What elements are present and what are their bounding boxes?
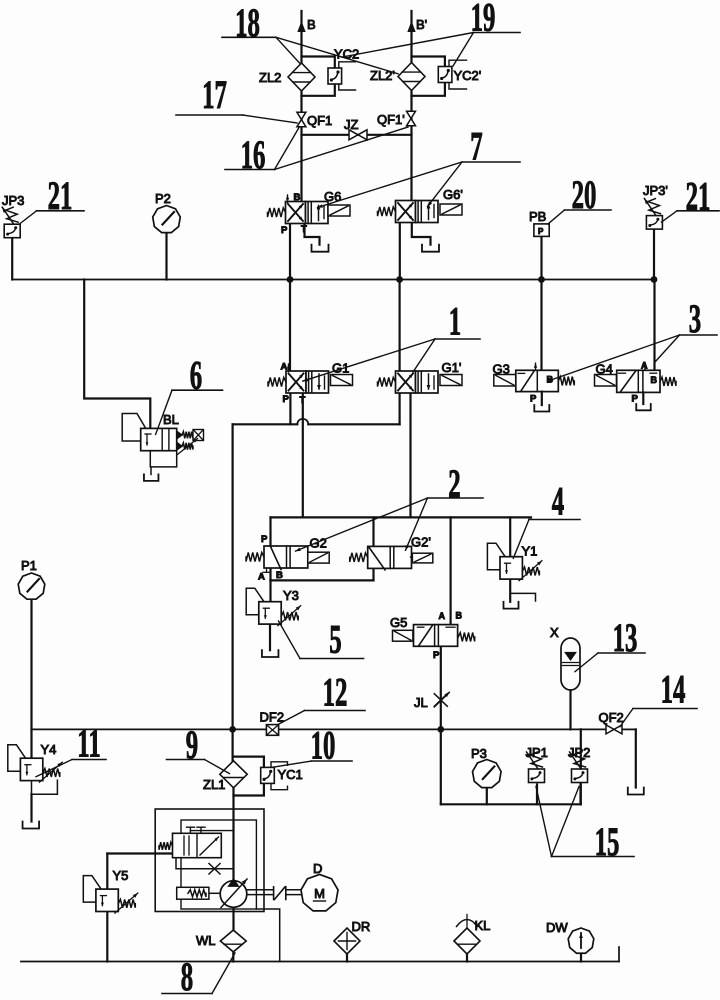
svg-text:B: B <box>307 17 316 32</box>
svg-text:6: 6 <box>190 354 202 398</box>
svg-text:13: 13 <box>613 616 638 660</box>
svg-text:KL: KL <box>475 918 491 933</box>
svg-text:P: P <box>538 227 544 236</box>
svg-text:14: 14 <box>661 668 686 712</box>
svg-text:JP1: JP1 <box>526 745 548 760</box>
svg-text:BL: BL <box>163 412 179 427</box>
svg-text:ZL2': ZL2' <box>370 68 395 83</box>
svg-text:ZL2: ZL2 <box>259 70 281 85</box>
svg-text:JL: JL <box>414 695 428 710</box>
svg-text:A: A <box>281 362 288 373</box>
svg-text:Y4: Y4 <box>41 742 57 757</box>
svg-text:B: B <box>456 611 463 621</box>
svg-text:B: B <box>294 192 301 203</box>
svg-text:5: 5 <box>329 618 341 662</box>
svg-text:G6: G6 <box>324 189 341 204</box>
svg-text:9: 9 <box>186 723 198 767</box>
svg-text:G5: G5 <box>390 615 407 630</box>
svg-text:B': B' <box>416 17 427 32</box>
svg-text:P2: P2 <box>155 191 171 206</box>
svg-text:JZ: JZ <box>344 117 359 132</box>
svg-text:D: D <box>313 861 322 876</box>
svg-text:12: 12 <box>323 671 348 715</box>
svg-text:DW: DW <box>546 920 568 935</box>
svg-text:19: 19 <box>471 0 496 40</box>
svg-text:DF2: DF2 <box>260 710 285 725</box>
svg-text:PB: PB <box>529 209 546 224</box>
svg-text:18: 18 <box>235 1 260 45</box>
svg-text:Y5: Y5 <box>113 868 129 883</box>
svg-text:20: 20 <box>572 173 597 217</box>
svg-text:G6': G6' <box>443 187 463 202</box>
svg-text:QF2: QF2 <box>599 710 624 725</box>
svg-text:21: 21 <box>48 174 73 218</box>
svg-text:P: P <box>632 394 639 405</box>
svg-text:Y3: Y3 <box>283 588 299 603</box>
svg-text:B: B <box>276 570 283 581</box>
svg-text:JP3': JP3' <box>643 183 668 198</box>
svg-text:21: 21 <box>686 175 711 219</box>
svg-text:A: A <box>641 361 648 371</box>
svg-text:17: 17 <box>202 73 227 117</box>
svg-text:P: P <box>281 225 288 236</box>
svg-text:B: B <box>651 375 658 385</box>
svg-text:15: 15 <box>595 820 620 864</box>
svg-text:G2: G2 <box>310 536 327 551</box>
svg-text:G2': G2' <box>411 535 431 550</box>
svg-text:A: A <box>258 572 265 583</box>
svg-text:QF1: QF1 <box>307 113 332 128</box>
svg-text:Y1: Y1 <box>522 544 538 559</box>
svg-text:DR: DR <box>352 919 371 934</box>
svg-text:P: P <box>530 394 537 405</box>
svg-text:X: X <box>550 625 559 640</box>
svg-text:G1': G1' <box>442 360 462 375</box>
svg-text:P: P <box>261 534 268 545</box>
svg-text:ZL1: ZL1 <box>203 777 225 792</box>
svg-text:P3: P3 <box>471 746 487 761</box>
svg-text:G1: G1 <box>332 361 349 376</box>
svg-text:JP2: JP2 <box>568 745 590 760</box>
svg-text:P: P <box>433 650 440 661</box>
svg-text:M: M <box>314 886 325 901</box>
svg-text:YC2': YC2' <box>454 68 482 83</box>
svg-text:YC1: YC1 <box>278 767 303 782</box>
svg-text:4: 4 <box>552 480 565 524</box>
svg-text:P: P <box>283 394 290 405</box>
svg-text:P1: P1 <box>21 558 37 573</box>
svg-text:T: T <box>301 224 307 235</box>
svg-text:WL: WL <box>196 933 216 948</box>
svg-text:A: A <box>439 611 446 621</box>
svg-text:T: T <box>300 395 306 406</box>
svg-text:16: 16 <box>241 133 266 177</box>
svg-text:QF1': QF1' <box>377 112 405 127</box>
svg-text:1: 1 <box>449 300 461 344</box>
svg-text:2: 2 <box>448 462 460 506</box>
svg-text:JP3: JP3 <box>2 193 24 208</box>
svg-text:G3: G3 <box>493 362 510 377</box>
